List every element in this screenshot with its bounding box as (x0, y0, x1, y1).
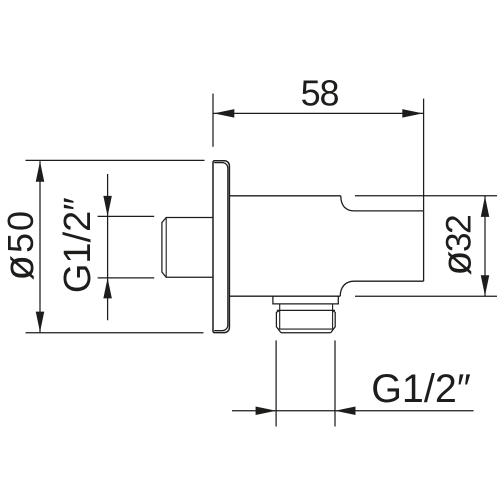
arrow o32 down (481, 275, 490, 296)
body top edge wide section (230, 195, 341, 197)
dimension o50 line (39, 161, 41, 332)
arrow G1/2 outlet pointing right (256, 407, 277, 416)
dimension G1/2 inlet extension line top (98, 215, 155, 217)
dimension G1/2 inlet line (107, 174, 109, 320)
wall plate inner contour (214, 163, 228, 331)
body bottom edge wide section (230, 295, 340, 297)
outlet flange (273, 296, 338, 304)
dimension 58 line (213, 112, 424, 114)
arrow 58 right (402, 109, 423, 118)
body narrow bottom edge (354, 280, 424, 282)
svg-text:58: 58 (301, 73, 339, 114)
body bottom step curve (340, 281, 354, 296)
svg-text:ø32: ø32 (434, 216, 480, 276)
dimension o32 extension line bottom (355, 295, 497, 297)
inlet connector G1/2 (162, 218, 213, 278)
body narrow top edge (354, 210, 424, 212)
dimension o32 extension line top (355, 195, 497, 197)
arrow G1/2 inlet up (103, 278, 112, 299)
thread cylinder top edge (277, 309, 335, 311)
thread cylinder left profile (276, 310, 281, 332)
thread cylinder lower ring line (278, 328, 333, 330)
inlet chamfer face line (165, 218, 167, 278)
svg-text:ø50: ø50 (0, 209, 42, 281)
wall plate outer outline (213, 161, 229, 333)
body right edge (423, 211, 425, 281)
dimension G1/2 outlet extension line left (275, 340, 277, 426)
arrow o50 up (36, 161, 45, 182)
svg-text:G1/2″: G1/2″ (57, 197, 99, 293)
body top step curve (341, 196, 354, 211)
dimension G1/2 outlet line (232, 410, 474, 412)
arrow G1/2 outlet pointing left (335, 407, 356, 416)
dimension o50 extension line top (26, 159, 205, 161)
outlet neck and thread relief lines (279, 304, 281, 329)
dimension 58 extension line left (212, 94, 214, 147)
arrow G1/2 inlet down (103, 196, 112, 217)
thread cylinder bottom edge (281, 332, 331, 334)
dimension G1/2 inlet extension line bottom (98, 277, 155, 279)
arrow o32 up (481, 196, 490, 217)
arrow 58 left (214, 109, 235, 118)
dimension 58 extension line right (423, 99, 425, 211)
dimension o32 line (484, 196, 486, 296)
svg-text:G1/2″: G1/2″ (371, 367, 471, 411)
arrow o50 down (36, 312, 45, 333)
dimension o50 extension line bottom (26, 332, 204, 334)
thread cylinder right profile (331, 310, 336, 332)
dimension G1/2 outlet extension line right (334, 340, 336, 426)
